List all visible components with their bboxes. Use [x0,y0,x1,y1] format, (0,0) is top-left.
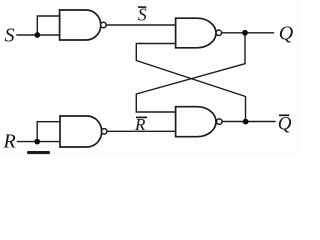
bubble U2 output [101,129,107,135]
svg-text:Q: Q [278,113,292,134]
bubble U4 output [217,119,223,125]
overbar of Qbar [279,114,289,116]
junction dot on Qbar node [243,119,249,125]
nand-gate U1 body (top-left, S inverter) [60,10,101,40]
scan artifact bar bottom-left [27,151,50,154]
wire R input [18,141,61,143]
wire Sbar net (G1 output to G3 upper input) [106,24,176,26]
bubble U1 output [101,22,107,28]
junction dot on Q node [242,30,248,36]
junction dot on S input [34,32,40,38]
wire S junction to G1 top input [37,16,59,35]
svg-text:S: S [5,25,15,47]
wire G3 lower input cross-coupled from Qbar node [136,44,245,122]
svg-text:R: R [3,131,16,153]
bubble U3 output [216,30,222,36]
overbar of Sbar [138,6,146,8]
wire R junction to G2 top input [37,122,60,142]
overbar of Rbar [136,116,147,118]
nand-gate U4 body (bottom-right, Qbar gate) [176,107,216,137]
wire Qbar output net [222,121,275,123]
wire S input [17,34,60,36]
wire Rbar net (G2 output to G4 lower input) [107,130,176,132]
nand-gate U3 body (top-right, Q gate) [176,18,216,48]
junction dot on R input [34,139,40,145]
svg-text:Q: Q [279,23,294,45]
nand-gate U2 body (bottom-left, R inverter) [60,116,102,147]
wire Q node cross-coupled to G4 upper input [136,33,245,112]
wire Q output net [221,32,273,34]
